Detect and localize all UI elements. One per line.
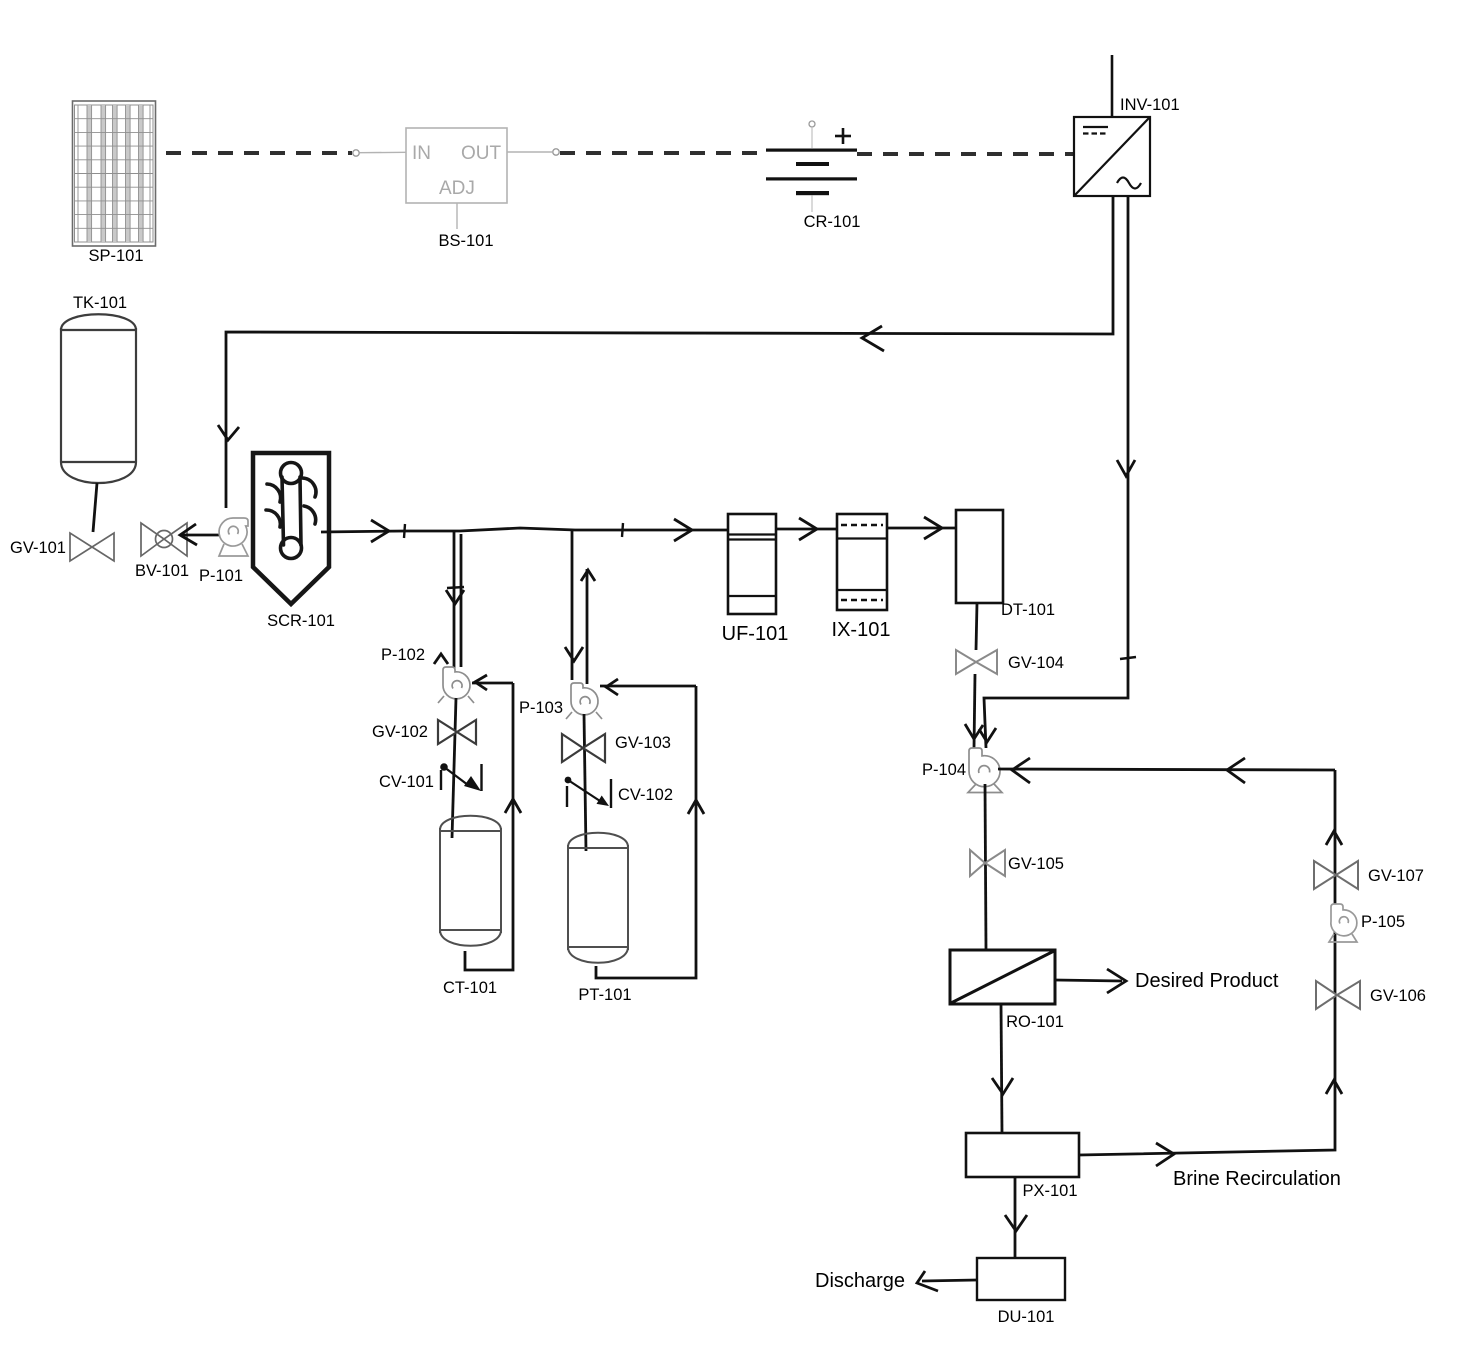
pump P-103 [566,683,602,719]
svg-text:SP-101: SP-101 [88,247,143,265]
tank TK-101 [61,314,136,483]
svg-text:OUT: OUT [461,143,502,164]
arrow right after SCR [371,520,389,542]
arrow up brine riser lower [1326,1080,1342,1094]
inverter INV-101 [1074,55,1150,196]
tank DT-101 [956,510,1003,603]
wire INV-101 left output to P-101 feed [226,196,1113,508]
wire dashed node to CR-101 [560,151,766,155]
arrow left into P-102 [475,675,487,690]
wire down to P-103 [571,530,574,680]
wire UF-101 to IX-101 [776,528,837,531]
svg-text:SCR-101: SCR-101 [267,612,335,630]
wire down to P-102 [453,531,456,668]
wire dashed SP-101 to node [166,151,352,155]
tick [404,524,405,538]
arrow up on PT riser [688,800,704,814]
unit DU-101 [977,1258,1065,1300]
arrow down on downcomer [446,590,464,604]
svg-text:TK-101: TK-101 [73,294,127,312]
svg-text:PX-101: PX-101 [1022,1182,1077,1200]
tank CT-101 [440,816,501,946]
arrow left discharge [917,1271,938,1291]
wire P-102 to CT-101 [452,698,456,838]
svg-text:CR-101: CR-101 [804,213,861,231]
wire DT-101 to GV-104 [976,603,977,650]
arrow left into P-103 [606,679,618,695]
svg-text:GV-102: GV-102 [372,723,428,741]
svg-text:P-104: P-104 [922,761,966,779]
svg-text:DU-101: DU-101 [998,1308,1055,1326]
wire IX-101 to DT-101 [887,527,956,530]
valve GV-105 [970,850,1005,876]
arrow down above P-104 [965,724,983,739]
valve GV-101 [70,533,114,561]
svg-text:GV-105: GV-105 [1008,855,1064,873]
arrow left into BV-101 [180,524,197,545]
wire BV-101 to P-101 [180,534,219,537]
wire DU-101 to discharge [922,1280,977,1281]
wire node to BS-101 [360,151,407,153]
svg-text:CT-101: CT-101 [443,979,497,997]
arrow down on INV line [1117,460,1135,476]
wire P-103 to PT-101 [584,714,586,851]
wire INV-101 right output to P-104 [984,196,1128,748]
svg-text:GV-106: GV-106 [1370,987,1426,1005]
svg-text:CV-102: CV-102 [618,786,673,804]
wire riser from P-102 [460,534,463,667]
valve GV-104 [956,650,997,674]
wire PT-101 bottom return [596,686,696,978]
wire RO-101 to PX-101 [1001,1004,1002,1133]
svg-text:Brine Recirculation: Brine Recirculation [1173,1168,1341,1190]
svg-text:P-103: P-103 [519,699,563,717]
svg-text:DT-101: DT-101 [1001,601,1055,619]
wire dashed CR-101 to INV-101 [857,152,1074,156]
tank PT-101 [568,833,628,963]
arrow down [1005,1215,1027,1231]
wire RO-101 to product [1055,980,1122,981]
arrow right before UF [674,519,692,541]
svg-text:INV-101: INV-101 [1120,96,1180,114]
svg-text:Discharge: Discharge [815,1270,905,1292]
wire PX-101 to DU-101 [1014,1177,1017,1258]
svg-text:P-105: P-105 [1361,913,1405,931]
svg-text:GV-103: GV-103 [615,734,671,752]
wire BS-101 to node [507,151,552,153]
svg-text:IN: IN [412,143,431,164]
main process line SCR-101 to UF-101 [321,528,728,532]
svg-text:RO-101: RO-101 [1006,1013,1064,1031]
arrow right [924,517,942,539]
arrow down into P-104 right branch [979,728,996,742]
arrow up on riser [581,570,595,581]
pump P-105 [1329,904,1357,942]
svg-text:GV-101: GV-101 [10,539,66,557]
arrow right product [1107,969,1126,993]
svg-text:BV-101: BV-101 [135,562,189,580]
membrane RO-101 [950,950,1055,1004]
valve GV-103 [562,734,605,762]
valve GV-106 [1316,981,1360,1009]
arrow up brine riser upper [1326,831,1342,845]
wire GV-104 to P-104 [974,674,975,748]
svg-text:PT-101: PT-101 [578,986,631,1004]
regulator BS-101 [406,128,507,229]
node circle [353,150,359,156]
arrow left on top line [862,326,884,351]
battery CR-101 [766,121,857,212]
svg-text:CV-101: CV-101 [379,773,434,791]
svg-text:ADJ: ADJ [439,178,475,199]
tick on downcomer [447,587,464,588]
screw reactor SCR-101 [253,453,329,604]
arrow right [799,518,817,540]
wire riser from P-103 [586,569,589,684]
wire CT-101 bottom return [465,683,513,970]
pump P-101 [219,518,248,556]
arrow left mid line [1227,758,1245,783]
valve GV-107 [1314,861,1358,889]
node circle [553,149,559,155]
svg-text:BS-101: BS-101 [438,232,493,250]
arrow down to P-101 [218,425,239,440]
svg-text:GV-104: GV-104 [1008,654,1064,672]
svg-text:Desired Product: Desired Product [1135,970,1279,992]
control valve CV-102 [565,777,611,808]
wire P-104 to RO-101 [985,784,986,950]
svg-text:GV-107: GV-107 [1368,867,1424,885]
wire brine recirculation into P-104 [998,769,1335,770]
svg-text:UF-101: UF-101 [722,623,789,645]
arrow right on brine line [1156,1143,1174,1166]
arrow up on CT riser [505,799,521,813]
valve BV-101 [141,523,187,556]
wire PX-101 to brine riser [1079,770,1335,1155]
wire TK-101 to GV-101 [93,483,97,532]
arrow down above P-103 [565,647,583,661]
tick [622,523,623,537]
svg-text:IX-101: IX-101 [832,619,891,641]
svg-text:P-102: P-102 [381,646,425,664]
exchanger IX-101 [837,514,887,610]
tick on INV line [1120,657,1136,659]
wire CT return into P-102 [472,682,513,685]
pump P-104 [968,748,1002,793]
wire PT return into P-103 [600,685,696,688]
arrow down [992,1078,1013,1094]
exchanger PX-101 [966,1133,1079,1177]
pump P-102 [438,667,474,703]
control valve CV-101 [440,763,481,791]
filter UF-101 [728,514,776,614]
arrow up floating [434,654,448,664]
arrow left into P-104 [1012,758,1030,783]
solar panel SP-101 [73,101,156,246]
valve GV-102 [438,720,476,744]
svg-text:P-101: P-101 [199,567,243,585]
